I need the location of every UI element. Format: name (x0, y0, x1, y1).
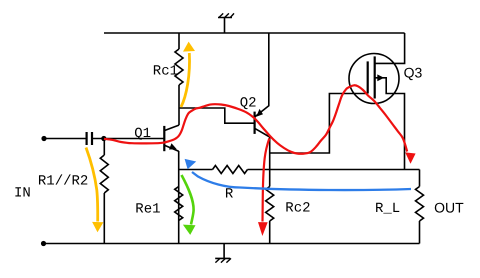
svg-text:R: R (225, 186, 234, 202)
svg-text:OUT: OUT (434, 200, 464, 216)
svg-text:Rc1: Rc1 (153, 64, 178, 80)
svg-text:Q3: Q3 (404, 65, 423, 81)
svg-text:Q2: Q2 (240, 96, 257, 112)
svg-text:Rc2: Rc2 (285, 200, 310, 216)
svg-text:Re1: Re1 (135, 202, 160, 218)
svg-text:Q1: Q1 (134, 126, 151, 142)
svg-text:IN: IN (14, 186, 31, 202)
svg-text:R1//R2: R1//R2 (38, 174, 88, 190)
svg-text:R_L: R_L (375, 201, 400, 217)
